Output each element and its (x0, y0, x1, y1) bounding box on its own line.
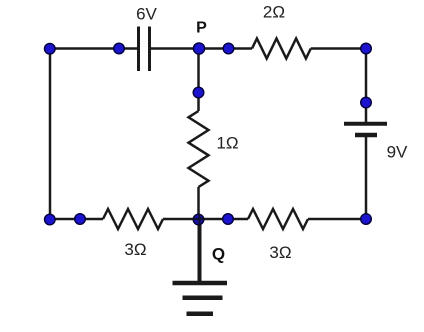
wire 3ohm left to node Q (163, 218, 199, 221)
wire cross over node Q (193, 218, 204, 220)
node P dot (193, 43, 204, 54)
node top-left corner (45, 43, 56, 54)
wire left side (49, 49, 52, 220)
wire bottom-left (corner to 3ohm left) (50, 218, 103, 221)
resistor 2ohm (252, 39, 311, 59)
wire top-left (corner to 6V battery) (50, 47, 137, 50)
node bottom-right corner (361, 214, 372, 225)
wire bottom-right corner to 3ohm right resistor (308, 218, 366, 221)
svg-text:Q: Q (212, 245, 225, 264)
svg-text:2Ω: 2Ω (263, 3, 285, 22)
node Q junction dot (193, 214, 204, 225)
resistor 1ohm (189, 111, 209, 187)
node bottom-left corner (45, 214, 56, 225)
svg-text:3Ω: 3Ω (124, 240, 146, 259)
wire right side lower (9V battery to bottom-right corner) (365, 135, 368, 219)
wire 2ohm to top-right corner (311, 47, 366, 50)
wire middle upper (P to 1ohm) (197, 49, 200, 112)
wire node Q to 3ohm right (199, 218, 249, 221)
node below P on middle branch (193, 87, 204, 98)
battery 9V plates (344, 124, 387, 135)
node on top wire before 6V (114, 43, 125, 54)
svg-text:P: P (196, 20, 207, 37)
resistor 3ohm left (103, 209, 163, 229)
node right of Q (223, 214, 234, 225)
wire node P to 2ohm resistor (199, 47, 253, 50)
resistor 3ohm right (248, 209, 308, 229)
svg-text:3Ω: 3Ω (269, 243, 291, 262)
wire middle lower (1ohm to node Q) (197, 187, 200, 219)
svg-text:6V: 6V (136, 5, 157, 24)
ground (173, 283, 228, 314)
node right of bottom-left corner (75, 214, 86, 225)
svg-text:1Ω: 1Ω (216, 134, 238, 153)
node top-right corner (361, 43, 372, 54)
node above 9V battery (361, 97, 372, 108)
wire right side upper (corner to 9V battery) (365, 49, 368, 123)
ground stem wire (198, 219, 202, 281)
wire 6V battery to node P (151, 47, 199, 50)
node on top wire after P (223, 43, 234, 54)
svg-text:9V: 9V (387, 143, 408, 162)
battery 6V plates (139, 27, 150, 72)
